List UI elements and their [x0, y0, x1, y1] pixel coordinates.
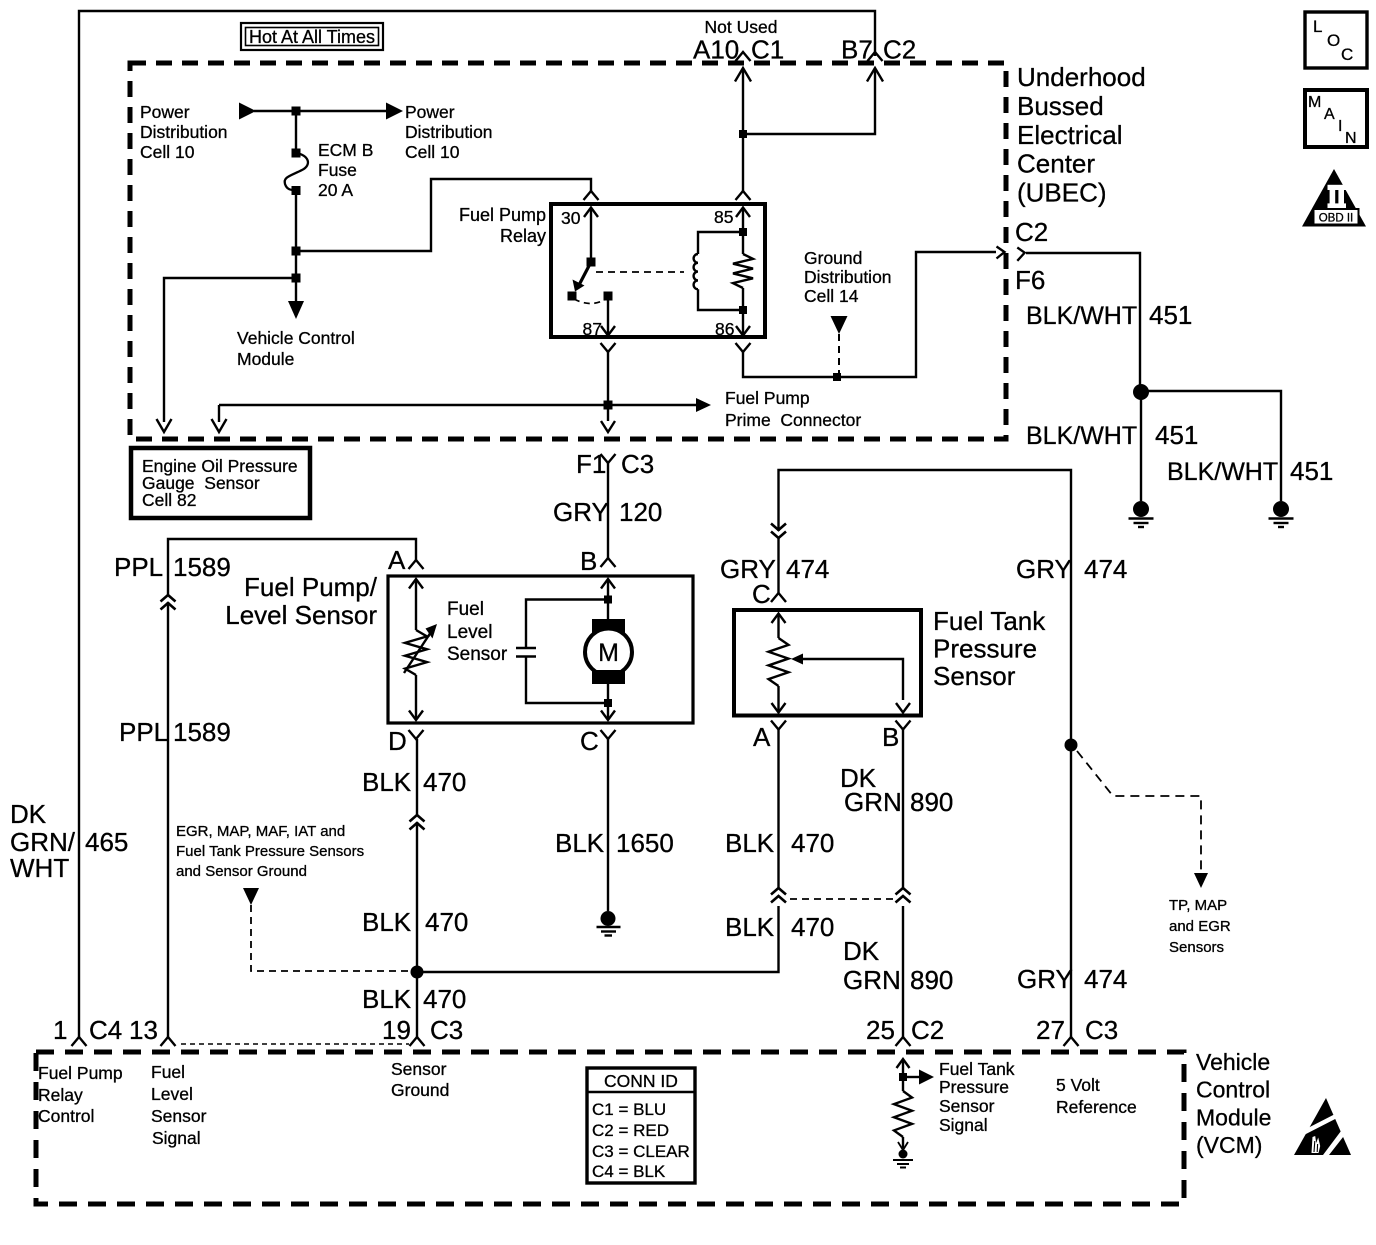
svg-text:C2: C2: [1015, 217, 1048, 247]
arrow: to Vehicle Control Module: [288, 301, 304, 319]
resistor: VCM pull-up on FTP signal: [894, 1077, 912, 1137]
connector chevron: fuel pump pin B: [601, 558, 616, 567]
wire: branch to engine oil pressure gauge (left drop): [164, 278, 296, 422]
svg-text:Sensor: Sensor: [939, 1096, 995, 1116]
off-page marker: BLK 470 right double chevron: [771, 888, 786, 903]
VCM internal ground (FTP bias): [893, 1137, 913, 1168]
svg-text:C3: C3: [621, 449, 654, 479]
arrow: from ground distribution (down): [831, 316, 848, 334]
arrow: to Power Distribution Cell 10 (right): [386, 103, 403, 120]
UBEC enclosure (dashed box): [130, 63, 1006, 439]
svg-text:1589: 1589: [173, 717, 231, 747]
wire: dashed off-page tie: [790, 898, 893, 900]
fuel level sender lead to D (arrow down): [409, 675, 423, 720]
node: Power Distribution Cell 10 (left): [140, 102, 228, 162]
svg-text:Relay: Relay: [38, 1085, 83, 1105]
svg-text:GRN: GRN: [843, 965, 901, 995]
label: DK GRN 890 (lower): [843, 936, 953, 995]
svg-text:Level: Level: [151, 1084, 193, 1104]
svg-text:Electrical: Electrical: [1017, 120, 1122, 150]
wire: dashed link to TP/MAP/EGR sensors: [1077, 751, 1201, 874]
svg-text:BLK/WHT: BLK/WHT: [1026, 422, 1137, 450]
svg-text:Fuel Pump: Fuel Pump: [459, 205, 546, 225]
label: pin 19: [382, 1015, 411, 1045]
svg-text:Bussed: Bussed: [1017, 91, 1104, 121]
label: BLK 470 (FTP upper): [725, 828, 834, 858]
svg-text:Level Sensor: Level Sensor: [225, 600, 377, 630]
svg-text:Ground: Ground: [804, 248, 862, 268]
resistor: FTP sense element: [769, 638, 789, 686]
svg-text:Fuel: Fuel: [447, 599, 484, 620]
svg-text:Center: Center: [1017, 149, 1095, 179]
svg-text:25: 25: [866, 1015, 895, 1045]
svg-text:470: 470: [791, 828, 834, 858]
svg-text:Sensors: Sensors: [1169, 939, 1224, 956]
svg-text:A10: A10: [693, 35, 739, 65]
label: BLK 470 (middle): [362, 907, 468, 937]
svg-text:13: 13: [129, 1015, 158, 1045]
node: Underhood Bussed Electrical Center (UBEC) name: [1017, 62, 1146, 208]
node: Fuel Level Sensor Signal (text): [151, 1062, 207, 1148]
svg-text:Fuel Pump/: Fuel Pump/: [244, 572, 378, 602]
junction: motor top: [604, 596, 612, 604]
svg-text:30: 30: [561, 208, 581, 228]
svg-text:Fuel Tank Pressure Sensors: Fuel Tank Pressure Sensors: [176, 843, 364, 860]
table: CONN ID: [587, 1068, 695, 1183]
svg-text:Fuel Tank: Fuel Tank: [939, 1059, 1015, 1079]
svg-text:A: A: [388, 545, 406, 575]
svg-text:N: N: [1345, 130, 1357, 147]
svg-text:Distribution: Distribution: [140, 122, 228, 142]
svg-text:Fuel Tank: Fuel Tank: [933, 606, 1046, 636]
junction: coil top: [739, 228, 747, 236]
svg-text:474: 474: [1084, 964, 1127, 994]
node: Fuel Pump Relay Control (text): [38, 1063, 123, 1126]
label: PPL 1589 (lower): [119, 717, 231, 747]
svg-text:C1: C1: [751, 35, 784, 65]
svg-text:C4 = BLK: C4 = BLK: [592, 1162, 666, 1181]
junction: sensor ground splice: [411, 966, 424, 979]
relay switch: pivot: [587, 258, 596, 267]
svg-text:BLK/WHT: BLK/WHT: [1026, 302, 1137, 330]
label: pin 25: [866, 1015, 895, 1045]
connector chevron: FTP sensor pin B: [896, 721, 911, 730]
svg-text:Fuel: Fuel: [151, 1062, 185, 1082]
label: GRY 474 (bottom): [1017, 964, 1127, 994]
svg-text:470: 470: [425, 907, 468, 937]
connector chevron: relay pin 85 (UBEC side): [736, 191, 751, 200]
svg-text:451: 451: [1290, 456, 1333, 486]
svg-text:and Sensor Ground: and Sensor Ground: [176, 863, 307, 880]
svg-text:TP, MAP: TP, MAP: [1169, 897, 1227, 914]
wire: GRY 120 to fuel pump B: [607, 463, 609, 558]
svg-text:Cell 10: Cell 10: [405, 142, 460, 162]
svg-text:86: 86: [715, 319, 734, 339]
label: pin 13: [129, 1015, 158, 1045]
svg-text:Ground: Ground: [391, 1080, 449, 1100]
wire: fuse output to VCM branch junction: [295, 251, 297, 278]
connector chevron: VCM pin 25 C2: [896, 1037, 911, 1046]
connector chevron: relay pin 86 (harness side): [736, 343, 751, 352]
arrow: down into UBEC edge (oil pressure feed): [157, 419, 172, 432]
svg-text:Distribution: Distribution: [405, 122, 493, 142]
connector chevron: FTP sensor pin C: [771, 593, 786, 602]
connector chevron: VCM pin 19 C3: [410, 1037, 425, 1046]
svg-text:ECM B: ECM B: [318, 140, 373, 160]
svg-text:C3: C3: [430, 1015, 463, 1045]
relay: Fuel Pump Relay (box): [551, 204, 765, 337]
label: GRY 120: [553, 497, 662, 527]
wire: DK GRN 890 to VCM pin 25: [902, 906, 904, 1037]
label: Fuel Level Sensor (text): [447, 599, 508, 665]
label: pin A: [388, 545, 406, 575]
off-page marker: PPL double chevron: [161, 595, 176, 610]
off-page marker: BLK 470 double chevron: [410, 815, 425, 830]
junction: GRY 474 splice: [1065, 739, 1078, 752]
relay coil suppression resistor: [733, 232, 753, 310]
svg-text:BLK: BLK: [725, 828, 775, 858]
wiper arrow: fuel level sender: [404, 624, 437, 673]
svg-text:C2: C2: [911, 1015, 944, 1045]
arrow: from EGR note (down): [243, 888, 259, 905]
svg-text:470: 470: [423, 984, 466, 1014]
wire: prime connector rail: [219, 404, 697, 406]
label: F6: [1015, 265, 1045, 295]
label: pin C: [580, 726, 599, 756]
node: Ground Distribution Cell 14 (text): [804, 248, 892, 306]
svg-text:451: 451: [1155, 420, 1198, 450]
svg-text:EGR, MAP, MAF, IAT and: EGR, MAP, MAF, IAT and: [176, 823, 345, 840]
svg-text:Signal: Signal: [152, 1128, 201, 1148]
FTP wiper arm to pin B: [791, 654, 910, 713]
connector chevron: fuel pump pin D: [409, 730, 424, 739]
label: C2 (UBEC exit): [1015, 217, 1048, 247]
relay switch: blade: [573, 262, 592, 292]
svg-text:F6: F6: [1015, 265, 1045, 295]
wire: dashed link ground distribution: [838, 334, 840, 374]
relay internal: pin 86 lead with arrow: [736, 310, 750, 336]
connector chevron: C2/F6 (right-facing): [1017, 248, 1024, 261]
svg-text:465: 465: [85, 827, 128, 857]
label: BLK/WHT 451 (upper): [1026, 300, 1192, 330]
svg-text:GRY: GRY: [553, 497, 609, 527]
component: Fuel Pump/Level Sensor (box): [388, 576, 693, 723]
wire: DK GRN/WHT 465 relay control (left frame bottom): [78, 1030, 80, 1037]
svg-text:Pressure: Pressure: [939, 1077, 1009, 1097]
svg-text:DK: DK: [10, 799, 47, 829]
svg-text:Control: Control: [1196, 1077, 1270, 1103]
wire: GRY 474 5V reference rail: [779, 470, 1072, 1037]
VCM internal: pin 25 lead (arrow up): [897, 1059, 910, 1077]
label: BLK/WHT 451 (middle): [1026, 420, 1198, 450]
svg-text:Distribution: Distribution: [804, 267, 892, 287]
label: pin 27: [1036, 1015, 1065, 1045]
label: Fuel Tank Pressure Sensor: [933, 606, 1046, 691]
svg-text:PPL: PPL: [119, 717, 168, 747]
svg-text:L: L: [1313, 17, 1322, 36]
junction: A10 / B7 split: [739, 130, 747, 138]
svg-text:C2: C2: [883, 35, 916, 65]
svg-text:1: 1: [53, 1015, 67, 1045]
arrow: to Fuel Pump Prime Connector: [696, 398, 711, 412]
wire: relay pin 87 down to prime junction: [607, 352, 609, 405]
svg-text:474: 474: [786, 554, 829, 584]
symbol: LOC reference box: [1305, 12, 1367, 68]
label: C2 (top): [883, 35, 916, 65]
note: TP, MAP and EGR Sensors: [1169, 897, 1231, 956]
wire: fuse to relay-branch junction: [295, 191, 297, 252]
junction: ground distribution tap: [833, 373, 841, 381]
connector chevron: B7 C2 at UBEC edge: [868, 52, 883, 61]
label: pin A (FTP): [753, 722, 771, 752]
svg-text:Sensor: Sensor: [151, 1106, 207, 1126]
svg-text:Control: Control: [38, 1106, 94, 1126]
svg-text:WHT: WHT: [10, 853, 69, 883]
wire: relay pin 85 up to A10/C1 junction: [742, 134, 744, 191]
wire: A10 riser with arrow: [735, 68, 751, 134]
label: Fuel Pump/Level Sensor: [225, 572, 378, 630]
relay switch: dashed throw arc: [574, 299, 606, 304]
junction: motor bottom: [604, 699, 612, 707]
motor M: fuel pump motor: [585, 600, 632, 704]
svg-text:M: M: [1308, 94, 1321, 111]
node: Vehicle Control Module (text): [237, 328, 355, 369]
svg-text:BLK: BLK: [362, 767, 412, 797]
svg-text:Vehicle: Vehicle: [1196, 1049, 1270, 1075]
svg-text:Cell 14: Cell 14: [804, 286, 859, 306]
arrow: to TP, MAP and EGR sensors: [1194, 873, 1208, 888]
connector chevron: FTP sensor pin A: [771, 721, 786, 730]
label: BLK/WHT 451 (right): [1167, 456, 1333, 486]
arrow: down into UBEC edge (left drop): [212, 419, 227, 432]
svg-text:Vehicle Control: Vehicle Control: [237, 328, 355, 348]
svg-text:BLK/WHT: BLK/WHT: [1167, 458, 1278, 486]
svg-text:C1 = BLU: C1 = BLU: [592, 1100, 666, 1119]
svg-text:CONN ID: CONN ID: [604, 1071, 678, 1091]
label: PPL 1589 (upper): [114, 552, 231, 582]
svg-text:5 Volt: 5 Volt: [1056, 1075, 1100, 1095]
svg-text:C3: C3: [1085, 1015, 1118, 1045]
fuse ECM B 20A: [285, 140, 374, 200]
pin 86 label: [715, 319, 734, 339]
junction: fuse output / relay branch: [292, 247, 301, 256]
fuel level sender lead (arrow up): [409, 579, 423, 630]
svg-text:C: C: [752, 579, 771, 609]
junction: VCM / oil-pressure branch: [292, 274, 301, 283]
svg-text:20 A: 20 A: [318, 180, 353, 200]
svg-text:BLK: BLK: [362, 907, 412, 937]
relay internal: pin 30 lead with arrow: [584, 208, 598, 263]
symbol: ESD sensitive device: [1294, 1098, 1351, 1155]
node: 5 Volt Reference (text): [1056, 1075, 1137, 1117]
svg-text:Module: Module: [1196, 1104, 1271, 1130]
wire: PPL 1589 fuel level signal: [168, 539, 416, 1037]
svg-text:C4: C4: [89, 1015, 122, 1045]
svg-text:27: 27: [1036, 1015, 1065, 1045]
off-page marker: DK GRN double chevron: [896, 888, 911, 903]
svg-text:Pressure: Pressure: [933, 634, 1037, 664]
svg-text:470: 470: [791, 912, 834, 942]
svg-text:BLK: BLK: [555, 828, 605, 858]
wire: BLK 1650 pump motor ground: [607, 739, 609, 911]
relay: dashed actuation link to coil: [596, 271, 684, 273]
fuel pump motor lead B (arrow up): [601, 579, 615, 599]
svg-text:(VCM): (VCM): [1196, 1132, 1262, 1158]
label: GRY 474 (left): [720, 554, 829, 584]
svg-text:C2 = RED: C2 = RED: [592, 1121, 669, 1140]
FTP sensor element lead (arrow down): [772, 686, 786, 713]
svg-text:PPL: PPL: [114, 552, 163, 582]
svg-text:C3 = CLEAR: C3 = CLEAR: [592, 1142, 690, 1161]
connector chevron: VCM pin 1 C4: [72, 1037, 87, 1046]
pin 85 label: [714, 207, 733, 227]
svg-text:Fuel Pump: Fuel Pump: [38, 1063, 123, 1083]
svg-text:OBD II: OBD II: [1319, 213, 1354, 225]
ground: G104 (right): [1269, 501, 1294, 527]
wire: pin 87 drop to F1 with arrow: [601, 405, 615, 432]
label: B7: [841, 35, 873, 65]
wire: power distribution bus: [254, 110, 386, 112]
svg-text:B: B: [580, 546, 597, 576]
svg-text:GRY: GRY: [1016, 554, 1072, 584]
svg-text:451: 451: [1149, 300, 1192, 330]
node: Engine Oil Pressure Gauge Sensor Cell 82 (box): [131, 448, 310, 518]
label box: Hot At All Times: [241, 23, 383, 50]
label: C3 (pin 27): [1085, 1015, 1118, 1045]
svg-text:and EGR: and EGR: [1169, 918, 1231, 935]
label: pin B (FTP): [882, 722, 899, 752]
connector chevron: fuel pump pin C: [601, 730, 616, 739]
relay switch: contact (87): [604, 292, 613, 301]
connector chevron: A10 C1 at UBEC edge: [736, 52, 751, 61]
label: pin 1: [53, 1015, 67, 1045]
node: Sensor Ground (text): [391, 1059, 449, 1100]
fuel pump motor lead C (arrow down): [601, 703, 615, 720]
svg-text:Power: Power: [140, 102, 190, 122]
svg-text:120: 120: [619, 497, 662, 527]
label: C1 (top): [751, 35, 784, 65]
svg-text:1650: 1650: [616, 828, 674, 858]
relay coil (inductor): [694, 232, 743, 310]
wire: branch to B7 riser with arrow: [743, 68, 883, 134]
component: Fuel Tank Pressure Sensor (box): [734, 610, 921, 716]
svg-text:Reference: Reference: [1056, 1097, 1137, 1117]
relay internal: pin 85 lead with arrow: [736, 208, 750, 233]
label: Not Used: [705, 17, 778, 37]
svg-text:Fuse: Fuse: [318, 160, 357, 180]
label: C4: [89, 1015, 122, 1045]
label: F1: [576, 449, 606, 479]
svg-text:C: C: [1341, 45, 1353, 64]
FTP sensor element lead (arrow up): [772, 614, 786, 639]
svg-text:Sensor: Sensor: [447, 644, 508, 665]
wire: BLK 470 sensor ground (D to VCM 19): [416, 739, 418, 1037]
svg-text:Underhood: Underhood: [1017, 62, 1146, 92]
wire: BLK/WHT 451 to right ground: [1141, 391, 1281, 501]
label: BLK 470 (bottom): [362, 984, 466, 1014]
label: GRY 474 (right): [1016, 554, 1127, 584]
resistor: fuel level sender (variable): [405, 630, 427, 675]
svg-text:O: O: [1327, 31, 1340, 50]
dashed connector row tie (pins 13-19): [181, 1043, 409, 1045]
label: A10: [693, 35, 739, 65]
label: BLK 1650: [555, 828, 674, 858]
svg-text:470: 470: [423, 767, 466, 797]
label: DK GRN/WHT 465: [10, 799, 128, 883]
svg-text:1589: 1589: [173, 552, 231, 582]
VCM enclosure (dashed box): [36, 1052, 1184, 1204]
svg-text:M: M: [598, 639, 619, 667]
svg-text:D: D: [388, 726, 407, 756]
connector chevron: VCM pin 27 C3: [1064, 1037, 1079, 1046]
capacitor: pump noise suppressor: [516, 600, 608, 704]
connector chevron: VCM pin 13: [161, 1037, 176, 1046]
svg-text:890: 890: [910, 965, 953, 995]
svg-text:F1: F1: [576, 449, 606, 479]
arrow: fuel tank pressure sensor signal (right): [905, 1070, 934, 1085]
svg-text:Prime Connector: Prime Connector: [725, 410, 861, 430]
svg-text:B7: B7: [841, 35, 873, 65]
label: BLK 470 (top): [362, 767, 466, 797]
node: Power Distribution Cell 10 (right): [405, 102, 493, 162]
svg-text:Level: Level: [447, 622, 492, 643]
wire: BLK/WHT 451 from C2/F6: [1026, 253, 1140, 386]
svg-text:Signal: Signal: [939, 1115, 988, 1135]
svg-text:Fuel Pump: Fuel Pump: [725, 388, 810, 408]
junction: BLK/WHT splice: [1133, 384, 1149, 400]
symbol: OBD II emblem: [1302, 169, 1366, 227]
wire: to Vehicle Control Module (arrow down): [295, 278, 297, 302]
svg-text:A: A: [753, 722, 771, 752]
label: pin C (FTP): [752, 579, 771, 609]
label: C2 (pin 25): [911, 1015, 944, 1045]
junction: fuel pump prime connector tap: [604, 401, 613, 410]
svg-text:890: 890: [910, 787, 953, 817]
relay internal: pin 87 lead with arrow: [601, 296, 615, 336]
wire: BLK 470 FTP ground return: [777, 730, 779, 889]
ground: G103 (left): [1129, 501, 1154, 527]
label: pin B: [580, 546, 597, 576]
node: Fuel Pump Prime Connector (text): [725, 388, 861, 430]
wire: dashed EGR note link: [251, 905, 412, 971]
junction: bus / fuse tap: [292, 107, 301, 116]
svg-text:87: 87: [583, 319, 602, 339]
label: C3 (F1): [621, 449, 654, 479]
junction: FTP signal node: [899, 1073, 907, 1081]
junction: coil bottom: [739, 306, 747, 314]
svg-text:Sensor: Sensor: [933, 661, 1016, 691]
node: Fuel Tank Pressure Sensor Signal (text): [939, 1059, 1015, 1135]
wire: branch to fuel pump relay pin 30: [296, 179, 591, 251]
wire: DK GRN 890 FTP signal: [902, 730, 904, 889]
note: EGR, MAP, MAF, IAT and Fuel Tank Pressure Sensors and Sensor Ground: [176, 823, 364, 880]
connector chevron: fuel pump pin A: [409, 560, 424, 569]
pin 87 label: [583, 319, 602, 339]
connector chevron: relay pin 30 (UBEC side): [584, 191, 599, 200]
label: C3 (pin 19): [430, 1015, 463, 1045]
svg-text:85: 85: [714, 207, 733, 227]
label: BLK 470 (FTP lower): [725, 912, 834, 942]
svg-text:GRN: GRN: [844, 787, 902, 817]
label: pin D: [388, 726, 407, 756]
symbol: MAIN reference box: [1305, 90, 1367, 147]
node: Vehicle Control Module (VCM) name: [1196, 1049, 1271, 1158]
label: Fuel Pump Relay: [459, 205, 546, 246]
svg-text:DK: DK: [843, 936, 880, 966]
connector chevron: F1 C3 (harness side): [601, 454, 616, 463]
svg-text:Cell 10: Cell 10: [140, 142, 195, 162]
relay switch: contact (NC): [568, 292, 577, 301]
